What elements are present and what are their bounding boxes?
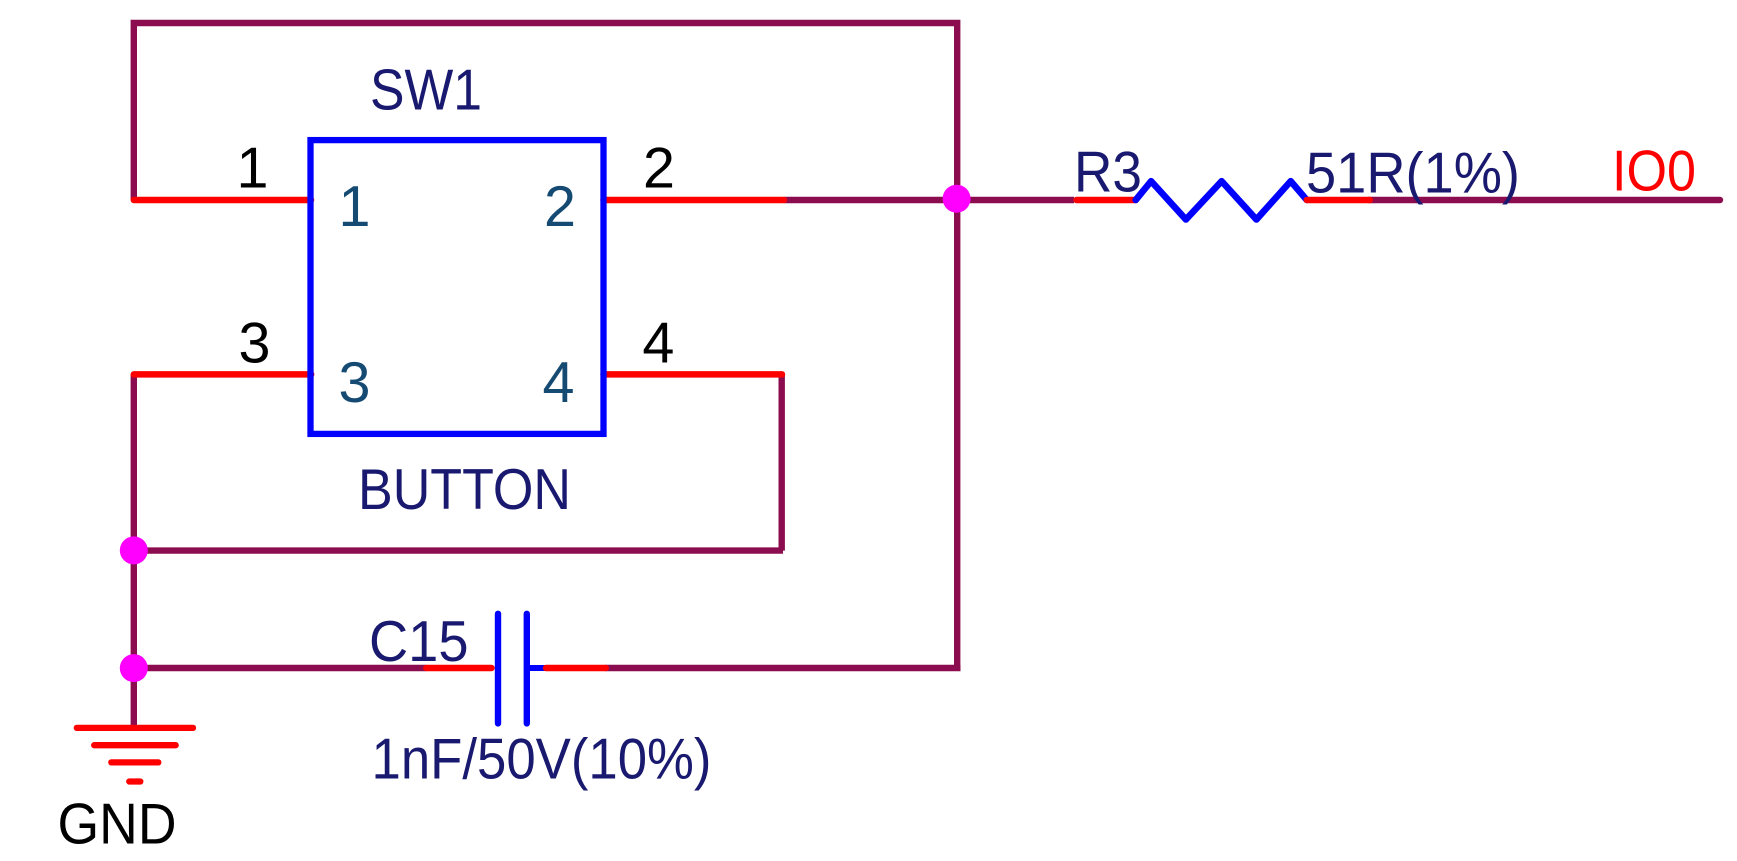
junction node at R3 tee [943, 185, 971, 213]
svg-text:R3: R3 [1074, 141, 1142, 205]
wire: junction to C15 left [134, 665, 427, 671]
ground symbol bar 2 [94, 742, 176, 748]
wire: top loop from pin1 up over to right vertical down to cap wire [134, 23, 957, 668]
junction node at bottom-left of button loop [120, 536, 148, 564]
wire: pin1 red stub [134, 197, 311, 204]
junction node at cap wire / gnd [120, 654, 148, 682]
capacitor C15 left plate [495, 614, 501, 724]
wire: bottom of button horizontal [134, 547, 783, 553]
resistor R3 right red stub [1307, 197, 1370, 204]
svg-text:4: 4 [642, 311, 674, 375]
svg-text:IO0: IO0 [1612, 140, 1696, 204]
resistor R3 zigzag [1136, 181, 1307, 219]
svg-text:SW1: SW1 [370, 59, 482, 123]
wire: pin4 vertical down [779, 374, 785, 550]
svg-text:1: 1 [237, 136, 269, 200]
svg-text:C15: C15 [369, 610, 469, 674]
ground symbol bar 4 [129, 778, 140, 784]
wire: pin2 to junction to R3 [784, 197, 1074, 203]
svg-text:BUTTON: BUTTON [358, 458, 571, 522]
svg-text:3: 3 [239, 311, 271, 375]
wire: R3 to IO0 [1369, 197, 1720, 203]
wire: pin2 red stub [604, 197, 785, 204]
wire: C15 right to right vertical [605, 665, 960, 671]
svg-text:3: 3 [339, 351, 371, 415]
capacitor C15 right red stub [546, 665, 606, 672]
capacitor C15 left red stub [426, 665, 491, 672]
svg-text:1: 1 [339, 175, 371, 239]
svg-text:2: 2 [643, 136, 675, 200]
svg-text:2: 2 [544, 175, 576, 239]
capacitor C15 right plate [524, 614, 530, 724]
switch SW1 body [311, 140, 604, 434]
ground symbol bar 1 [77, 725, 193, 731]
ground symbol bar 3 [111, 759, 158, 765]
resistor R3 left red stub [1077, 197, 1136, 204]
wire: pin3 red stub [134, 371, 311, 378]
capacitor C15 right pin stub (blue) [527, 665, 546, 671]
svg-text:1nF/50V(10%): 1nF/50V(10%) [372, 727, 712, 791]
wire: pin4 red stub [604, 371, 783, 378]
svg-text:4: 4 [543, 351, 575, 415]
wire: left vertical from pin3 down to GND [131, 374, 137, 728]
svg-text:GND: GND [58, 792, 177, 856]
svg-text:51R(1%): 51R(1%) [1306, 142, 1520, 206]
